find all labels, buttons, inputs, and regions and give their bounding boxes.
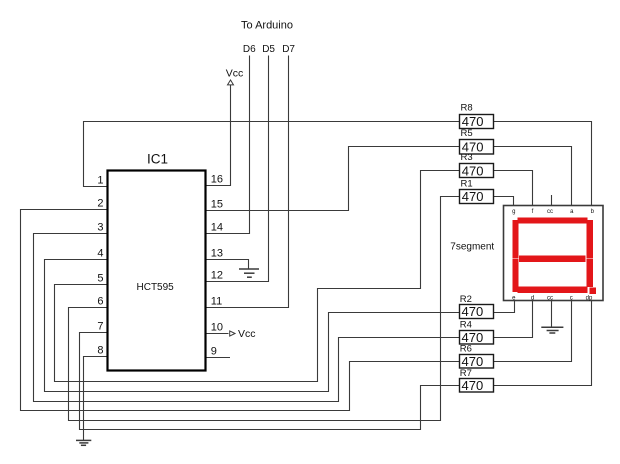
wire R8 right to 7seg pin b [494, 122, 592, 207]
svg-text:R4: R4 [460, 319, 472, 330]
svg-text:R8: R8 [461, 103, 473, 114]
7seg segment g [519, 256, 586, 263]
svg-text:D6: D6 [243, 44, 256, 55]
svg-text:7: 7 [97, 321, 103, 333]
resistor R3 body [460, 164, 494, 178]
svg-text:5: 5 [97, 273, 103, 285]
svg-text:c: c [570, 295, 573, 301]
svg-text:R1: R1 [461, 178, 473, 189]
wire R6 right to 7seg pin c [494, 301, 572, 362]
svg-text:470: 470 [462, 140, 484, 155]
svg-text:dp: dp [586, 295, 593, 301]
resistor R1 body [460, 190, 494, 204]
resistor R8 body [460, 115, 494, 129]
svg-text:470: 470 [462, 189, 484, 204]
svg-text:470: 470 [462, 378, 484, 393]
wire 7seg top cc stub [551, 195, 553, 206]
svg-text:D7: D7 [282, 44, 295, 55]
svg-text:4: 4 [97, 248, 103, 260]
svg-text:13: 13 [211, 248, 223, 260]
svg-text:16: 16 [211, 174, 223, 186]
wire R4 right to 7seg pin d [494, 301, 533, 338]
ground at 7seg cc [541, 327, 563, 333]
7seg segment c [587, 259, 594, 287]
svg-text:2: 2 [97, 198, 103, 210]
wire pin16 to Vcc arrow [205, 85, 231, 186]
svg-text:470: 470 [462, 304, 484, 319]
svg-text:470: 470 [462, 163, 484, 178]
wire R3 right to 7seg pin f [494, 171, 533, 207]
resistor R2 body [460, 305, 494, 319]
resistor R7 body [460, 379, 494, 393]
svg-text:Vcc: Vcc [226, 68, 244, 80]
svg-text:11: 11 [211, 296, 222, 308]
svg-text:6: 6 [97, 296, 103, 308]
svg-text:470: 470 [462, 114, 484, 129]
wire pin7 to R7 left [80, 333, 460, 430]
svg-text:To Arduino: To Arduino [241, 20, 293, 32]
wire pin8 to ground [84, 357, 108, 441]
wire pin6 to R1 left [69, 197, 460, 421]
wire pin13 to ground [205, 260, 249, 269]
svg-text:15: 15 [211, 199, 223, 211]
power symbol Vcc top arrow [228, 80, 234, 85]
7seg segment d [518, 287, 588, 294]
svg-text:1: 1 [97, 175, 103, 187]
wire pin10 stub to Vcc arrow [205, 333, 229, 335]
resistor R5 body [460, 140, 494, 155]
svg-text:cc: cc [547, 209, 553, 215]
ground at pin 8 [76, 440, 91, 445]
svg-text:3: 3 [97, 222, 103, 234]
svg-text:12: 12 [211, 270, 223, 282]
svg-text:470: 470 [462, 330, 484, 345]
7seg segment dp [590, 288, 597, 295]
IC U1 HCT595 body [108, 171, 206, 371]
svg-text:g: g [512, 209, 515, 215]
wire pin11 to node D7 [205, 56, 289, 308]
7seg segment f [513, 220, 519, 259]
wire R1 right to 7seg pin g [494, 197, 514, 207]
svg-text:470: 470 [462, 354, 484, 369]
svg-text:cc: cc [547, 295, 553, 301]
svg-text:8: 8 [97, 345, 103, 357]
wire R7 right to 7seg pin dp [494, 301, 592, 386]
wire pin4 to R2 left [45, 260, 460, 392]
wire pin2 to R6 left [21, 210, 460, 411]
svg-text:14: 14 [211, 222, 223, 234]
svg-text:R6: R6 [460, 344, 472, 355]
power symbol Vcc arrow at pin 10 [230, 331, 235, 336]
svg-text:R5: R5 [461, 128, 473, 139]
ground at pin 13 [239, 269, 259, 277]
resistor R4 body [460, 331, 494, 345]
svg-text:9: 9 [211, 346, 217, 358]
resistor R6 body [460, 355, 494, 369]
wire 7seg bottom cc to ground [551, 301, 553, 328]
svg-text:HCT595: HCT595 [137, 282, 175, 293]
wire pin1 to R8 left [84, 122, 460, 187]
svg-text:7segment: 7segment [450, 242, 494, 253]
wire pin5 to R3 left [55, 171, 460, 382]
wire pin3 to R4 left [34, 234, 460, 402]
wire R5 right to 7seg pin a [494, 147, 572, 207]
svg-text:10: 10 [211, 322, 223, 334]
7seg segment e [513, 259, 519, 292]
svg-text:d: d [531, 295, 534, 301]
wire pin12 to node D5 [205, 56, 269, 282]
wire pin15 to R5 left [205, 147, 460, 211]
wire R2 right to 7seg pin e [494, 301, 515, 313]
7seg segment a [518, 218, 588, 224]
wire pin9 stub [205, 357, 230, 359]
7seg segment b [587, 220, 594, 259]
svg-text:IC1: IC1 [147, 152, 168, 167]
svg-text:Vcc: Vcc [238, 328, 256, 340]
7-segment display DS1 body [504, 206, 604, 301]
wire pin14 to node D6 [205, 56, 250, 234]
svg-text:D5: D5 [262, 44, 275, 55]
